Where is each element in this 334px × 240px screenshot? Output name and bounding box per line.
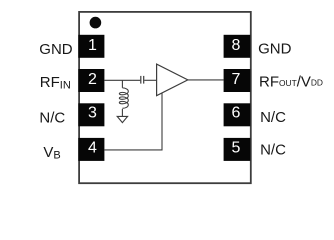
svg-text:RFOUT/VDD: RFOUT/VDD <box>259 74 323 91</box>
svg-text:2: 2 <box>88 71 97 88</box>
svg-text:N/C: N/C <box>39 109 65 126</box>
inductor L1 (shunt coil) <box>119 88 128 108</box>
svg-text:7: 7 <box>231 71 240 88</box>
svg-text:GND: GND <box>258 41 292 58</box>
svg-text:N/C: N/C <box>260 141 286 158</box>
pin 1 indicator dot <box>90 17 102 29</box>
svg-text:VB: VB <box>43 144 60 162</box>
pin 1 pad <box>78 35 104 58</box>
svg-text:RFIN: RFIN <box>40 74 71 91</box>
svg-text:6: 6 <box>231 105 240 122</box>
svg-text:GND: GND <box>39 41 73 58</box>
svg-text:1: 1 <box>88 37 97 54</box>
svg-text:N/C: N/C <box>260 109 286 126</box>
wire capacitor to amplifier <box>144 79 156 81</box>
amplifier U1 <box>157 64 188 96</box>
pin 2 pad <box>78 69 104 92</box>
wire amplifier output to pin7 <box>188 79 224 81</box>
ground symbol <box>117 116 127 122</box>
pin 4 pad <box>78 138 104 161</box>
wire inductor to ground <box>121 109 123 116</box>
capacitor (dc block) <box>141 76 144 84</box>
svg-text:8: 8 <box>231 37 240 54</box>
pin 3 pad <box>78 103 104 126</box>
svg-text:5: 5 <box>231 140 240 157</box>
pin 8 pad <box>224 35 251 58</box>
package outline <box>79 12 251 183</box>
pin 6 pad <box>224 103 251 126</box>
pin 7 pad <box>224 69 251 92</box>
wire shunt branch from input node <box>121 80 123 88</box>
svg-text:3: 3 <box>88 105 97 122</box>
wire pin4 bias to amplifier <box>104 93 162 150</box>
svg-text:4: 4 <box>88 140 97 157</box>
pin 5 pad <box>224 138 251 161</box>
wire pin2 to capacitor <box>104 79 140 81</box>
